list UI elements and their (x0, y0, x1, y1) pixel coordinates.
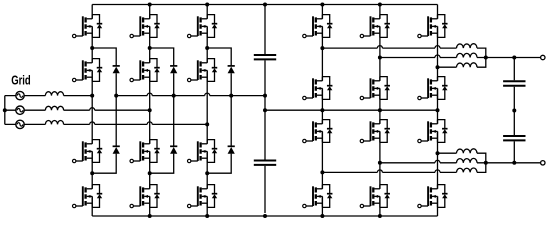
AC source Va (16, 91, 24, 99)
wire bottom interleave phase1 with hops (322, 170, 456, 173)
node neutral junctions (114, 94, 118, 98)
inductor L4 (457, 168, 478, 172)
wire L3 to top output node (477, 58, 486, 68)
transistor Q2 (73, 59, 103, 82)
node leg2 junctions (148, 46, 152, 50)
wire grid neutral vertical (4, 96, 6, 125)
transistor Q13 (303, 15, 333, 38)
svg-text:Grid: Grid (11, 73, 31, 88)
transistor Q16 (303, 185, 333, 208)
wire buck leg1 vertical segments (321, 5, 323, 217)
diode D3 (170, 66, 177, 73)
wire bottom DC bus (92, 215, 437, 217)
transistor Q8 (130, 185, 160, 208)
node phase B junction (148, 108, 152, 112)
transistor Q17 (360, 15, 390, 38)
diode D4 (170, 146, 177, 153)
transistor Q23 (418, 120, 448, 143)
transistor Q11 (188, 140, 218, 163)
transistor Q21 (418, 15, 448, 38)
inductor L1 (457, 44, 478, 48)
transistor Q22 (418, 77, 448, 100)
inductor Lc (45, 120, 63, 124)
transistor Q10 (188, 59, 218, 82)
wire L1 to top output node (477, 48, 486, 57)
node grid neutral junction (3, 108, 7, 112)
wire NPC leg2 vertical segments (149, 5, 151, 217)
transistor Q15 (303, 120, 333, 143)
diode D5 (228, 66, 235, 73)
transistor Q18 (360, 77, 390, 100)
transistor Q7 (130, 140, 160, 163)
diode D2 (113, 146, 120, 153)
wire neutral bus with hops over leg2 leg3 (116, 93, 265, 95)
transistor Q12 (188, 185, 218, 208)
node leg1 junctions (90, 46, 94, 50)
wire top interleave phase3 (438, 66, 457, 68)
wire phase A left (5, 95, 46, 97)
wire top interleave phase1 with hops (322, 46, 456, 49)
node buck leg2 taps (378, 56, 382, 60)
inductor L3 (457, 63, 478, 67)
transistor Q19 (360, 120, 390, 143)
wire NPC leg1 vertical segments (91, 5, 93, 217)
wire phase B left (5, 109, 46, 111)
node bottom output junctions (484, 161, 488, 165)
transistor Q14 (303, 77, 333, 100)
node midpoint bus junctions (263, 108, 267, 112)
transistor Q9 (188, 15, 218, 38)
node buck leg3 taps (436, 65, 440, 69)
node output capacitor midpoint (512, 109, 516, 113)
wire top DC bus (92, 4, 437, 6)
diode D1 (113, 66, 120, 73)
wire bottom interleave phase2 with hop (380, 160, 457, 163)
wire bottom interleave phase3 (438, 152, 457, 154)
node top bus junctions (148, 3, 152, 7)
inductor L2 (457, 53, 478, 57)
AC source Vb (16, 106, 24, 114)
node phase C junction (205, 122, 209, 126)
node buck leg1 taps (320, 46, 324, 50)
diode D6 (228, 146, 235, 153)
terminal bottom output (541, 161, 545, 165)
node bottom bus junctions (148, 214, 152, 218)
inductor Lb (45, 106, 63, 110)
wire output capacitor branch (513, 58, 515, 163)
transistor Q24 (418, 185, 448, 208)
inductor L6 (457, 149, 478, 153)
node phase A junction (90, 94, 94, 98)
capacitor C2 (254, 161, 276, 165)
node leg3 junctions (205, 46, 209, 50)
wire L6 to bottom output node (477, 153, 486, 163)
capacitor C4 (503, 136, 525, 140)
transistor Q4 (73, 185, 103, 208)
inductor L5 (457, 158, 478, 162)
transistor Q1 (73, 15, 103, 38)
wire clamp chain phase A (92, 48, 116, 173)
wire NPC leg3 vertical segments (206, 5, 208, 217)
wire top output (477, 57, 541, 59)
node top output junctions (484, 56, 488, 60)
transistor Q6 (130, 59, 160, 82)
wire DC midpoint bus to right converter (265, 109, 438, 111)
wire clamp chain phase B (150, 48, 174, 173)
wire L4 to bottom output node (477, 163, 486, 173)
transistor Q3 (73, 140, 103, 163)
wire phase C left (5, 123, 46, 125)
capacitor C1 (254, 55, 276, 59)
capacitor C3 (503, 81, 525, 85)
wire phase B to leg2 with hop over leg1 (64, 108, 150, 111)
wire buck leg2 vertical segments (379, 5, 381, 217)
wire DC link branch (264, 5, 266, 214)
transistor Q20 (360, 185, 390, 208)
wire phase C to leg3 with hops over leg1 leg2 (64, 122, 208, 124)
transistor Q5 (130, 15, 160, 38)
terminal top output (541, 55, 545, 59)
AC source Vc (16, 120, 24, 128)
wire phase A to leg1 (64, 95, 93, 97)
wire clamp chain phase C (207, 48, 231, 173)
wire bottom output (477, 162, 541, 164)
inductor La (45, 92, 63, 96)
wire top interleave phase2 with hop (380, 55, 457, 58)
wire buck leg3 vertical segments (437, 5, 439, 217)
